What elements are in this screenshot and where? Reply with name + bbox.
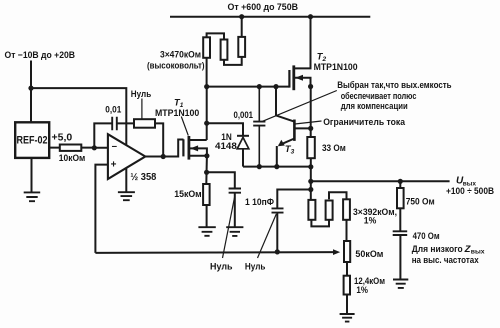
svg-text:MTP1N100: MTP1N100 [314, 62, 358, 72]
svg-text:0,01: 0,01 [105, 105, 121, 115]
svg-text:½ 358: ½ 358 [130, 172, 156, 183]
svg-text:Ограничитель тока: Ограничитель тока [323, 117, 406, 127]
svg-text:15кОм: 15кОм [174, 189, 202, 199]
svg-text:обеспечивает полюс: обеспечивает полюс [341, 91, 417, 101]
svg-text:33 Ом: 33 Ом [322, 143, 346, 153]
svg-text:Для низкого: Для низкого [412, 244, 463, 254]
svg-text:для компенсации: для компенсации [341, 101, 408, 111]
svg-text:Нуль: Нуль [131, 89, 152, 99]
svg-text:+5,0: +5,0 [52, 132, 73, 143]
svg-text:+100 ÷ 500В: +100 ÷ 500В [446, 186, 494, 196]
svg-text:+: + [111, 160, 117, 171]
svg-text:От −10В до +20В: От −10В до +20В [5, 50, 76, 60]
svg-text:(высоковольт): (высоковольт) [147, 61, 205, 71]
svg-text:REF-02: REF-02 [17, 134, 48, 146]
svg-text:−: − [112, 141, 118, 152]
svg-text:на выс. частотах: на выс. частотах [412, 255, 480, 265]
svg-text:Нуль: Нуль [245, 262, 266, 272]
svg-text:10кОм: 10кОм [59, 153, 86, 163]
svg-text:470 Ом: 470 Ом [413, 231, 440, 241]
svg-text:3×470кОм: 3×470кОм [160, 50, 201, 60]
svg-text:Нуль: Нуль [210, 262, 233, 272]
svg-text:4148: 4148 [215, 141, 237, 151]
svg-text:1%: 1% [356, 285, 368, 295]
svg-text:50кОм: 50кОм [355, 249, 383, 259]
svg-text:1 10пФ: 1 10пФ [245, 197, 274, 207]
svg-text:Выбран так,что вых.емкость: Выбран так,что вых.емкость [337, 80, 452, 90]
svg-text:0,001: 0,001 [234, 110, 254, 120]
svg-text:750 Ом: 750 Ом [406, 196, 435, 206]
svg-text:1%: 1% [364, 215, 377, 225]
svg-text:От +600 до 750В: От +600 до 750В [228, 2, 299, 12]
svg-text:MTP1N100: MTP1N100 [155, 108, 199, 118]
